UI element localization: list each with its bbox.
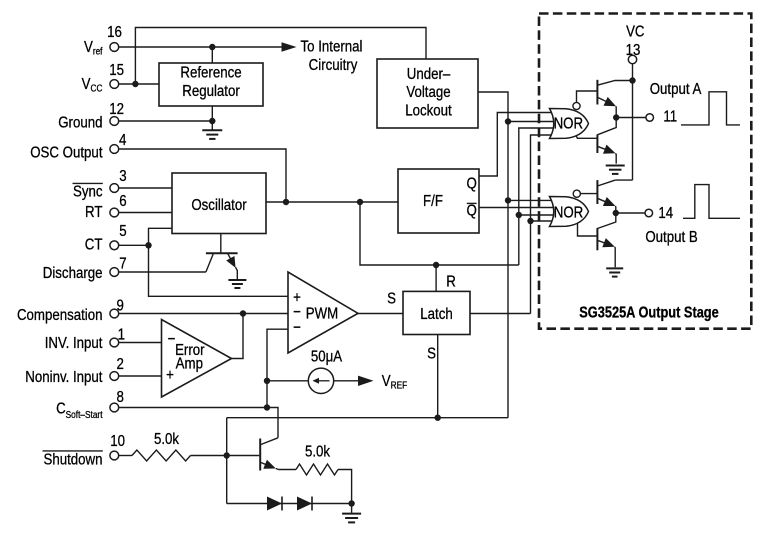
svg-text:12: 12	[109, 101, 124, 118]
svg-text:5: 5	[119, 223, 126, 240]
svg-text:8: 8	[117, 389, 124, 406]
svg-text:Compensation: Compensation	[17, 307, 103, 324]
svg-text:Under–: Under–	[407, 66, 451, 83]
svg-text:2: 2	[117, 356, 124, 373]
svg-text:6: 6	[119, 193, 126, 210]
svg-text:R: R	[446, 273, 456, 290]
svg-text:13: 13	[626, 42, 641, 59]
svg-text:50μA: 50μA	[311, 348, 342, 365]
svg-text:1: 1	[118, 327, 125, 344]
svg-text:Output A: Output A	[650, 81, 702, 98]
svg-text:CT: CT	[85, 236, 103, 253]
svg-text:Lockout: Lockout	[405, 103, 451, 120]
svg-text:NOR: NOR	[554, 116, 583, 133]
svg-text:16: 16	[107, 24, 122, 41]
svg-text:INV. Input: INV. Input	[45, 335, 103, 352]
svg-text:To Internal: To Internal	[301, 38, 363, 55]
svg-text:SG3525A Output Stage: SG3525A Output Stage	[579, 304, 718, 322]
svg-text:Ground: Ground	[58, 114, 102, 131]
svg-text:9: 9	[117, 297, 124, 314]
svg-text:PWM: PWM	[306, 305, 338, 322]
svg-text:Circuitry: Circuitry	[309, 57, 358, 74]
svg-text:5.0k: 5.0k	[305, 443, 331, 460]
svg-text:Discharge: Discharge	[43, 265, 103, 282]
svg-text:Output B: Output B	[645, 229, 698, 246]
svg-text:VC: VC	[626, 24, 645, 41]
svg-text:10: 10	[110, 433, 125, 450]
svg-text:NOR: NOR	[554, 204, 583, 221]
svg-text:Q: Q	[467, 203, 477, 220]
svg-text:F/F: F/F	[423, 193, 443, 210]
svg-text:−: −	[168, 331, 176, 348]
svg-text:Reference: Reference	[180, 64, 241, 81]
svg-text:RT: RT	[85, 204, 102, 221]
svg-text:Noninv. Input: Noninv. Input	[25, 369, 102, 386]
svg-text:Latch: Latch	[420, 306, 452, 323]
svg-text:S: S	[427, 345, 436, 362]
svg-text:7: 7	[119, 255, 126, 272]
svg-text:Regulator: Regulator	[182, 83, 240, 100]
svg-text:S: S	[387, 290, 396, 307]
svg-text:−: −	[293, 320, 301, 337]
svg-text:OSC Output: OSC Output	[30, 144, 102, 161]
svg-text:14: 14	[658, 205, 673, 222]
svg-text:15: 15	[109, 62, 124, 79]
svg-text:Sync: Sync	[73, 184, 102, 201]
svg-text:3: 3	[119, 168, 126, 185]
svg-text:Shutdown: Shutdown	[43, 451, 102, 468]
svg-text:11: 11	[663, 108, 677, 125]
svg-text:Voltage: Voltage	[406, 84, 450, 101]
svg-text:Amp: Amp	[176, 355, 203, 372]
svg-text:Oscillator: Oscillator	[191, 197, 246, 214]
svg-text:4: 4	[119, 132, 126, 149]
svg-text:+: +	[166, 367, 174, 384]
svg-text:5.0k: 5.0k	[154, 431, 180, 448]
svg-text:Q: Q	[467, 176, 477, 193]
